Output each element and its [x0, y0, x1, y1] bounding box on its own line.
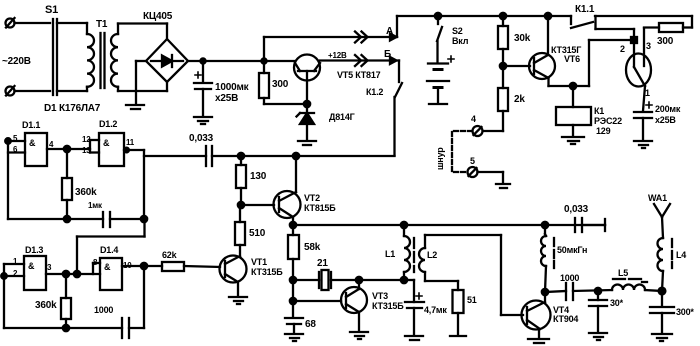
svg-text:10: 10 [123, 261, 132, 270]
svg-text:130: 130 [250, 171, 267, 182]
svg-text:51: 51 [467, 295, 477, 305]
svg-text:~220В: ~220В [2, 56, 31, 67]
svg-text:&: & [29, 138, 36, 148]
svg-text:Д814Г: Д814Г [329, 112, 355, 122]
svg-text:КТ815Б: КТ815Б [304, 203, 336, 213]
svg-text:L4: L4 [676, 250, 686, 260]
svg-text:D1.2: D1.2 [99, 119, 117, 129]
svg-text:&: & [103, 138, 110, 148]
svg-text:VT2: VT2 [304, 193, 320, 203]
svg-text:30*: 30* [610, 298, 624, 308]
svg-text:Т1: Т1 [96, 19, 108, 30]
svg-text:11: 11 [126, 138, 135, 147]
svg-text:1мк: 1мк [88, 201, 103, 210]
svg-text:1000: 1000 [94, 305, 113, 315]
svg-text:1: 1 [645, 88, 650, 98]
svg-text:L5: L5 [618, 268, 628, 278]
svg-text:300: 300 [272, 79, 289, 90]
svg-text:VT6: VT6 [564, 54, 580, 64]
svg-text:200мк: 200мк [655, 104, 681, 114]
svg-text:КТ315Б: КТ315Б [251, 267, 283, 277]
svg-text:50мкГн: 50мкГн [557, 245, 587, 255]
svg-text:VT5 КТ817: VT5 КТ817 [337, 70, 381, 80]
svg-text:2: 2 [620, 44, 625, 54]
svg-text:21: 21 [317, 258, 328, 269]
svg-text:КТ904: КТ904 [553, 314, 578, 324]
svg-text:3: 3 [646, 41, 651, 51]
svg-text:68: 68 [305, 319, 316, 330]
svg-text:S1: S1 [45, 4, 58, 16]
svg-text:х25В: х25В [655, 115, 676, 125]
svg-text:510: 510 [249, 228, 266, 239]
svg-text:360k: 360k [35, 300, 57, 311]
svg-text:D1 К176ЛА7: D1 К176ЛА7 [44, 103, 101, 114]
svg-text:VT1: VT1 [251, 257, 267, 267]
svg-text:VT3: VT3 [372, 291, 388, 301]
svg-text:129: 129 [596, 126, 611, 136]
svg-text:РЭС22: РЭС22 [594, 116, 622, 126]
svg-text:1000: 1000 [560, 273, 579, 283]
svg-text:4,7мк: 4,7мк [424, 305, 447, 315]
svg-text:WA1: WA1 [648, 193, 667, 203]
svg-text:D1.3: D1.3 [25, 245, 43, 255]
svg-text:S2: S2 [452, 26, 463, 36]
svg-text:2k: 2k [514, 94, 525, 105]
svg-text:4: 4 [471, 114, 476, 124]
svg-text:D1.4: D1.4 [100, 245, 118, 255]
svg-text:&: & [28, 261, 35, 271]
svg-text:300: 300 [657, 36, 674, 47]
svg-text:360k: 360k [75, 187, 97, 198]
svg-text:5: 5 [470, 156, 475, 166]
svg-text:К1.1: К1.1 [575, 4, 595, 15]
svg-text:13: 13 [82, 146, 91, 155]
svg-text:L1: L1 [385, 249, 395, 259]
svg-text:62k: 62k [162, 250, 178, 260]
svg-text:А: А [386, 26, 393, 37]
svg-text:300*: 300* [676, 307, 694, 317]
svg-text:шнур: шнур [435, 147, 445, 170]
svg-text:4: 4 [49, 140, 54, 149]
svg-text:КТ315Б: КТ315Б [372, 301, 404, 311]
svg-text:58k: 58k [304, 242, 321, 253]
svg-text:12: 12 [82, 135, 91, 144]
svg-text:0,033: 0,033 [564, 204, 589, 215]
svg-text:&: & [104, 262, 111, 272]
svg-text:3: 3 [47, 263, 52, 272]
svg-text:0,033: 0,033 [189, 133, 214, 144]
svg-text:КЦ405: КЦ405 [143, 11, 173, 22]
svg-text:х25В: х25В [215, 93, 238, 104]
svg-text:30k: 30k [514, 33, 531, 44]
svg-text:1000мк: 1000мк [215, 82, 250, 93]
svg-text:D1.1: D1.1 [22, 120, 40, 130]
svg-text:К1: К1 [594, 106, 604, 116]
svg-text:Б: Б [384, 49, 391, 60]
svg-text:К1.2: К1.2 [366, 87, 383, 97]
svg-text:L2: L2 [427, 250, 437, 260]
svg-text:Вкл: Вкл [452, 36, 469, 46]
svg-text:+12В: +12В [328, 51, 347, 60]
